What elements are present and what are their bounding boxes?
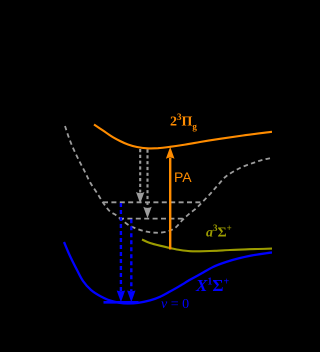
excited state dashed curve (0g-)	[65, 126, 272, 233]
gray decay arrow 1	[139, 149, 141, 193]
PA arrow (orange, upward)	[169, 158, 171, 250]
label X^1Sigma+	[196, 277, 229, 294]
gray decay arrow 2	[146, 150, 148, 208]
v=0 level line	[104, 301, 139, 304]
label 2^3Pi_g	[170, 113, 197, 131]
vibrational level 2	[119, 218, 184, 220]
a^3Sigma+ olive potential curve	[142, 240, 272, 252]
label PA	[174, 170, 192, 184]
2^3Pi_g orange potential curve	[94, 125, 272, 149]
blue decay arrow 2	[130, 219, 132, 291]
label v=0	[161, 298, 189, 312]
X ground state blue potential curve	[64, 242, 272, 304]
blue decay arrow 1	[120, 203, 122, 291]
vibrational level 1	[103, 201, 203, 203]
label a^3Sigma+	[206, 224, 232, 241]
